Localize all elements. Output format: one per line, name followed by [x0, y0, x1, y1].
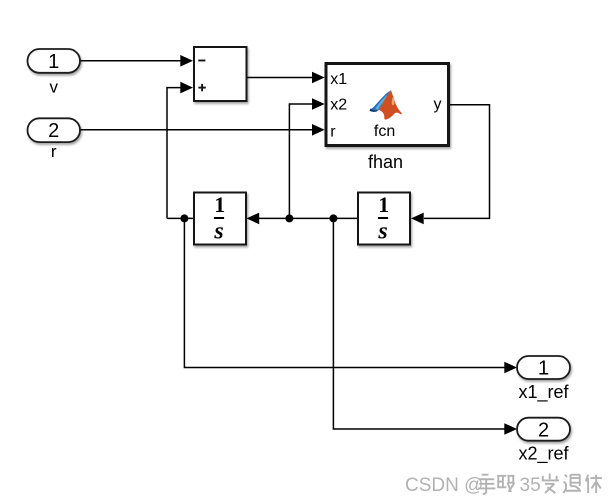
- svg-text:x2_ref: x2_ref: [518, 444, 569, 465]
- svg-text:fcn: fcn: [374, 123, 395, 140]
- svg-text:1: 1: [214, 192, 225, 217]
- svg-text:x1: x1: [330, 71, 347, 88]
- svg-text:fhan: fhan: [368, 152, 403, 172]
- svg-text:1: 1: [48, 51, 59, 73]
- svg-text:2: 2: [48, 120, 59, 142]
- svg-text:35: 35: [520, 475, 541, 496]
- svg-text:CSDN @: CSDN @: [405, 475, 483, 496]
- svg-text:s: s: [213, 219, 223, 245]
- svg-text:1: 1: [378, 192, 389, 217]
- svg-text:2: 2: [538, 419, 549, 441]
- svg-text:x1_ref: x1_ref: [518, 382, 569, 403]
- svg-text:r: r: [51, 142, 57, 161]
- svg-text:r: r: [330, 123, 336, 140]
- svg-text:v: v: [49, 77, 58, 96]
- svg-text:1: 1: [538, 358, 549, 380]
- svg-text:s: s: [377, 219, 387, 245]
- svg-text:x2: x2: [330, 96, 347, 113]
- svg-text:y: y: [434, 96, 442, 113]
